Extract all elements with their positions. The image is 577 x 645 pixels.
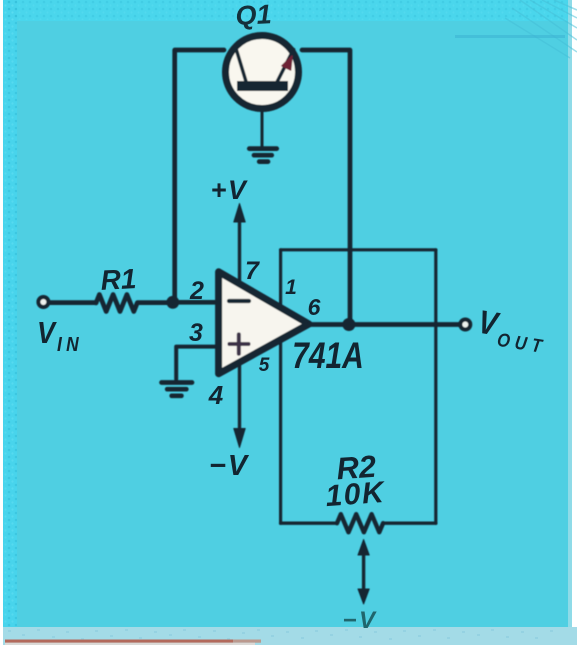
feedback box top edge xyxy=(281,248,436,251)
svg-text:741A: 741A xyxy=(292,336,364,377)
svg-text:7: 7 xyxy=(245,257,260,285)
svg-text:IN: IN xyxy=(57,333,83,355)
svg-text:3: 3 xyxy=(189,319,203,347)
label 741A xyxy=(292,336,364,377)
svg-text:4: 4 xyxy=(208,380,224,410)
node: output junction xyxy=(342,318,355,331)
svg-text:−V: −V xyxy=(342,607,377,634)
wire: pin 3 to ground xyxy=(176,347,218,379)
+V supply arrow head xyxy=(234,204,245,223)
wire: Vin to R1 xyxy=(49,300,96,305)
wire: R1 to node xyxy=(138,300,173,305)
-V supply arrow head xyxy=(234,429,245,448)
svg-text:10K: 10K xyxy=(324,476,387,513)
wire: Q1 collector to output node xyxy=(302,50,350,322)
wire: offset-null pins 1 and 5 vertical (behind op-amp) xyxy=(279,250,282,523)
resistor R1 xyxy=(96,295,137,312)
terminal Vout xyxy=(460,320,470,330)
wire: Q1 base lead xyxy=(261,91,264,146)
wire: Q1 emitter to inverting-input node xyxy=(175,50,224,300)
svg-text:Q1: Q1 xyxy=(235,0,273,31)
ground (Q1 base) xyxy=(249,149,276,162)
svg-text:−V: −V xyxy=(209,450,250,482)
svg-text:5: 5 xyxy=(259,355,270,376)
ground (pin 3) xyxy=(162,383,193,396)
feedback box bottom edge (right of R2) xyxy=(383,522,436,525)
wire: +V / -V supply line (behind op-amp) xyxy=(238,219,241,430)
terminal Vin xyxy=(38,297,48,307)
svg-text:R1: R1 xyxy=(100,263,137,296)
svg-text:V: V xyxy=(37,316,57,350)
svg-text:6: 6 xyxy=(308,294,321,320)
svg-text:2: 2 xyxy=(189,277,204,305)
feedback box bottom edge (left of R2) xyxy=(281,522,337,525)
label VOUT xyxy=(474,303,551,358)
pot wiper arrow to -V xyxy=(358,540,369,605)
label VIN xyxy=(37,316,83,355)
wire: node to pin 2 xyxy=(173,300,218,305)
transistor Q1 xyxy=(226,36,299,109)
resistor R2 (offset pot) xyxy=(337,514,383,532)
svg-text:+V: +V xyxy=(211,175,248,205)
svg-text:1: 1 xyxy=(285,276,297,299)
wire: output pin 6 to Vout terminal xyxy=(309,322,460,327)
node: inverting input junction xyxy=(166,296,179,309)
feedback box right edge xyxy=(434,250,437,523)
op-amp U1 (741A) xyxy=(219,272,309,374)
